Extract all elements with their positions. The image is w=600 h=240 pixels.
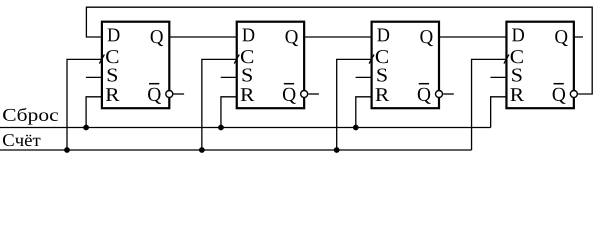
wire: FF3 C (clock) input from Schyot bus: [337, 59, 372, 150]
FF1 output label Q-bar (Q with overbar): [148, 88, 161, 104]
FF4 dynamic clock input slash on C: [504, 54, 509, 63]
wire: FF1 S input stub (unconnected): [86, 76, 102, 78]
flip-flop FF1 body: [102, 22, 169, 109]
junction dot on Schyot bus at FF2 C wire: [199, 147, 205, 153]
FF1 pin label C: [106, 50, 118, 63]
net label: Sbros (Reset): [3, 108, 58, 125]
FF2 pin label R: [241, 88, 255, 101]
junction dot on Sbros bus at FF2 R wire: [218, 125, 224, 131]
junction dot on Schyot bus at FF1 C wire: [64, 147, 70, 153]
wire: FF2 Q output to FF3 D input: [304, 36, 371, 38]
FF2 pin label S: [243, 68, 252, 81]
FF4 pin label D: [512, 29, 524, 42]
wire: FF2 S input stub (unconnected): [221, 76, 237, 78]
FF1 output label Q: [151, 30, 164, 46]
wire: FF4 C (clock) input from Schyot bus: [472, 59, 507, 150]
wire: Schyot (count/clock) bus line: [0, 149, 472, 151]
FF3 pin label D: [377, 29, 389, 42]
wire: FF2 R (reset) input from Sbros bus: [221, 97, 237, 128]
FF2 pin label D: [242, 29, 254, 42]
FF4 inversion bubble on Q-bar output: [570, 91, 577, 98]
flip-flop FF4 body: [506, 22, 573, 109]
FF3 output label Q: [420, 30, 433, 46]
net label: Schyot (Count): [3, 134, 40, 146]
wire: FF4 S input stub (unconnected): [490, 76, 506, 78]
wire: FF4 Q output stub (unconnected): [574, 36, 583, 38]
junction dot on Sbros bus at FF3 R wire: [353, 125, 359, 131]
wire: feedback from FF4 inverse output Q-bar to FF1 D input (top run): [86, 7, 592, 94]
FF1 pin label D: [108, 29, 120, 42]
FF3 output label Q-bar (Q with overbar): [418, 88, 431, 104]
FF4 pin label S: [512, 68, 521, 81]
FF1 pin label R: [106, 88, 120, 101]
flip-flop FF3 body: [372, 22, 439, 109]
wire: FF1 Q-bar output stub: [174, 93, 185, 95]
FF1 pin label S: [108, 68, 117, 81]
wire: FF1 R (reset) input from Sbros bus: [86, 97, 102, 128]
FF4 pin label C: [511, 50, 523, 63]
FF2 dynamic clock input slash on C: [234, 54, 239, 63]
FF1 inversion bubble on Q-bar output: [166, 91, 173, 98]
wire: FF3 S input stub (unconnected): [356, 76, 372, 78]
wire: FF2 Q-bar output stub: [308, 93, 319, 95]
FF4 pin label R: [510, 88, 524, 101]
wire: FF1 C (clock) input from Schyot bus: [67, 59, 102, 150]
wire: FF3 Q output to FF4 D input: [439, 36, 506, 38]
wire: Sbros (reset) bus line: [0, 127, 491, 129]
wire: FF2 C (clock) input from Schyot bus: [202, 59, 237, 150]
FF3 pin label R: [376, 88, 390, 101]
FF4 output label Q-bar (Q with overbar): [553, 88, 566, 104]
FF4 output label Q: [555, 30, 568, 46]
FF3 pin label S: [377, 68, 386, 81]
FF2 inversion bubble on Q-bar output: [301, 91, 308, 98]
FF3 pin label C: [376, 50, 388, 63]
FF2 pin label C: [241, 50, 253, 63]
flip-flop FF2 body: [237, 22, 304, 109]
wire: FF3 Q-bar output stub: [443, 93, 454, 95]
wire: FF1 Q output to FF2 D input: [169, 36, 236, 38]
junction dot on Schyot bus at FF3 C wire: [334, 147, 340, 153]
FF3 inversion bubble on Q-bar output: [436, 91, 443, 98]
wire: FF4 R (reset) input from Sbros bus: [491, 97, 507, 128]
FF2 output label Q: [286, 30, 299, 46]
FF2 output label Q-bar (Q with overbar): [283, 88, 296, 104]
junction dot on Sbros bus at FF1 R wire: [83, 125, 89, 131]
FF3 dynamic clock input slash on C: [369, 54, 374, 63]
wire: FF3 R (reset) input from Sbros bus: [356, 97, 372, 128]
FF1 dynamic clock input slash on C: [99, 54, 104, 63]
